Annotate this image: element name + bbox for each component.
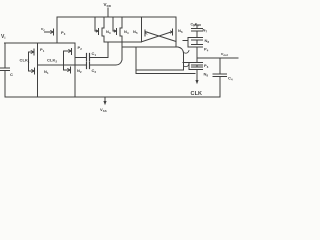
transistor P1: [29, 43, 38, 65]
transistor N6 (cross-coupled right): [173, 17, 177, 47]
wire node B down to C2: [121, 47, 123, 58]
transistor N8b: [192, 65, 203, 70]
wire gate feed N8: [183, 38, 192, 48]
transistor N7 (right column top): [192, 25, 203, 38]
wire box right edge: [183, 52, 185, 70]
transistor P6: [192, 58, 203, 65]
capacitor C: [1, 43, 10, 97]
node Vi label: [1, 34, 5, 40]
wire box bottom: [136, 69, 183, 71]
transistor N2: [64, 66, 76, 97]
wire clk feed: [136, 73, 195, 75]
wire CLK arrow: [196, 70, 198, 81]
node CLK label: [191, 91, 203, 97]
wire inverter1 output: [38, 64, 87, 66]
label P3: [61, 30, 66, 36]
wire node B to right edge: [178, 47, 184, 53]
wire gate curl upper: [184, 51, 190, 54]
node CLK1 label: [20, 58, 31, 64]
wire Vi rail: [5, 42, 76, 44]
node VSS arrow: [104, 97, 106, 102]
wire gate loop P6: [183, 62, 189, 64]
wire node A: [104, 41, 142, 43]
node vc label: [41, 26, 45, 32]
svg-text:CLK: CLK: [191, 91, 203, 97]
transistor N5 (cross-coupled left): [142, 17, 146, 42]
wire C1 right: [90, 42, 109, 58]
wire inverter2 input: [63, 51, 65, 70]
capacitor C2: [87, 62, 90, 69]
wire C1 left: [75, 57, 86, 59]
transistor P4: [192, 45, 203, 59]
transistor N3: [95, 17, 104, 42]
capacitor C1: [87, 54, 90, 61]
wire top rail: [57, 16, 176, 18]
svg-text:C: C: [10, 72, 13, 77]
wire node B down left: [135, 47, 137, 74]
transistor P2: [64, 43, 76, 66]
label N5: [133, 29, 138, 35]
transistor N4: [113, 17, 122, 47]
label C5K7: [191, 23, 200, 28]
wire inverter1 input: [28, 52, 30, 71]
label N7: [203, 28, 208, 34]
wire gate curl lower: [184, 64, 190, 67]
transistor P3: [45, 17, 58, 43]
transistor N8: [192, 38, 203, 45]
wire node B: [122, 46, 178, 48]
transistor N1: [29, 65, 38, 97]
node VDD label: [104, 2, 112, 8]
wire cross couple: [143, 32, 177, 42]
node CLK2 label: [47, 58, 58, 64]
wire VDD drop: [107, 8, 109, 17]
wire bottom rail: [5, 96, 220, 98]
wire Vout: [197, 57, 238, 59]
capacitor C4: [213, 58, 227, 97]
wire gate link lower pair: [189, 63, 192, 70]
wire C2 right: [90, 58, 123, 65]
